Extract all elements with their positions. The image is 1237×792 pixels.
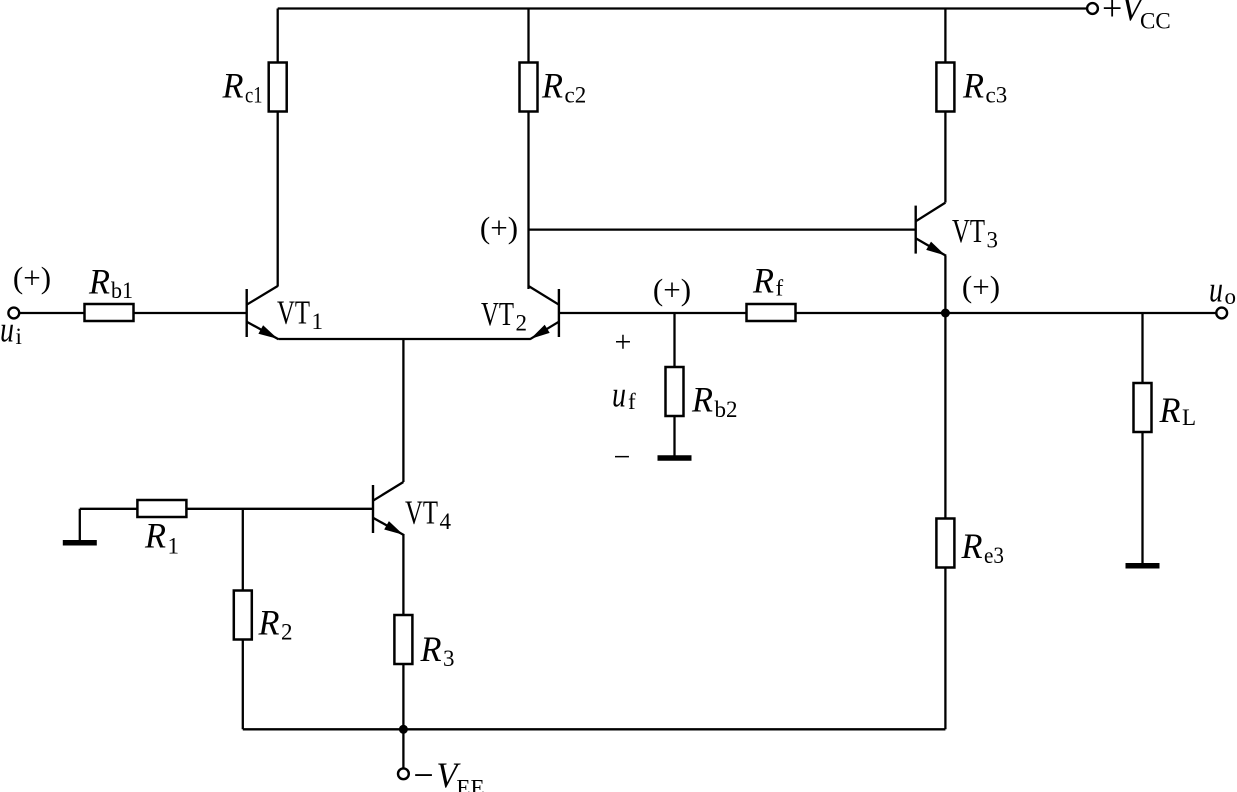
wire Rc2 to VT3 base bbox=[529, 228, 916, 230]
svg-text:−: − bbox=[413, 755, 433, 792]
svg-text:R: R bbox=[962, 66, 984, 106]
resistor Rc2 bbox=[520, 63, 587, 112]
ground R1 bbox=[63, 509, 97, 543]
svg-text:L: L bbox=[1182, 405, 1196, 430]
svg-text:o: o bbox=[1225, 284, 1237, 309]
svg-text:f: f bbox=[776, 276, 784, 301]
svg-text:(+): (+) bbox=[653, 272, 691, 307]
wire RL bottom lead bbox=[1141, 432, 1143, 563]
junction dot output node bbox=[941, 309, 950, 318]
svg-text:c1: c1 bbox=[245, 83, 263, 108]
wire Rb2 top lead bbox=[673, 313, 675, 367]
wire VT3 emitter to output node bbox=[944, 256, 946, 313]
svg-text:(+): (+) bbox=[480, 210, 518, 245]
label ui bbox=[0, 310, 22, 350]
wire VT4 emitter to R3 bbox=[402, 535, 404, 616]
svg-text:f: f bbox=[628, 389, 636, 414]
wire Rc2 top lead bbox=[527, 9, 529, 63]
resistor Rf bbox=[747, 261, 796, 322]
label (+) feedback node bbox=[653, 272, 691, 307]
svg-text:R: R bbox=[752, 261, 774, 301]
wire Rc2 bottom lead bbox=[527, 112, 529, 290]
svg-text:4: 4 bbox=[440, 509, 452, 534]
svg-text:u: u bbox=[1209, 269, 1223, 309]
svg-text:VT: VT bbox=[481, 296, 514, 333]
terminal -VEE bbox=[398, 755, 485, 792]
terminal ui bbox=[8, 308, 19, 319]
wire R2 bottom lead bbox=[242, 640, 244, 730]
label (+) input bbox=[13, 260, 51, 295]
svg-text:R: R bbox=[961, 526, 983, 566]
wire Rc3 bottom lead bbox=[944, 112, 946, 203]
wire Re3 to bottom rail bbox=[944, 568, 946, 730]
resistor Rb2 bbox=[666, 367, 738, 422]
svg-text:VT: VT bbox=[952, 213, 985, 250]
wire VT4 collector bbox=[402, 339, 404, 482]
svg-text:3: 3 bbox=[987, 228, 999, 253]
ground RL bbox=[1126, 563, 1160, 569]
label VT4 bbox=[405, 495, 452, 535]
resistor Rc1 bbox=[222, 63, 287, 112]
svg-text:EE: EE bbox=[456, 776, 484, 792]
label uf bbox=[612, 374, 636, 414]
svg-text:1: 1 bbox=[312, 309, 324, 334]
resistor Re3 bbox=[936, 519, 1004, 568]
svg-text:c2: c2 bbox=[565, 83, 587, 108]
svg-text:b1: b1 bbox=[111, 278, 133, 303]
wire Rc1 top lead bbox=[277, 9, 279, 63]
resistor R2 bbox=[234, 591, 293, 645]
terminal +VCC bbox=[1087, 0, 1171, 34]
wire R1 to VT4 base bbox=[186, 508, 373, 510]
svg-text:1: 1 bbox=[168, 534, 180, 559]
label VT2 bbox=[481, 296, 527, 336]
label (+) output node bbox=[962, 269, 1000, 304]
svg-text:VT: VT bbox=[405, 495, 438, 532]
svg-text:e3: e3 bbox=[984, 543, 1004, 568]
wire Rc3 top lead bbox=[944, 9, 946, 63]
wire VT2 base to uo bbox=[559, 312, 1216, 314]
wire +VCC top rail bbox=[278, 7, 1087, 9]
svg-text:CC: CC bbox=[1140, 9, 1171, 34]
wire VT1-VT2 emitter rail bbox=[279, 338, 531, 340]
terminal uo bbox=[1209, 269, 1236, 318]
svg-text:R: R bbox=[541, 66, 563, 106]
svg-text:R: R bbox=[222, 66, 244, 106]
svg-text:i: i bbox=[16, 324, 22, 349]
wire Rb1 to VT1 base bbox=[134, 312, 247, 314]
svg-text:R: R bbox=[88, 262, 110, 302]
svg-text:2: 2 bbox=[281, 620, 293, 645]
transistor VT1 bbox=[247, 286, 279, 339]
wire ui to Rb1 bbox=[19, 312, 85, 314]
label (+) VT3 base bbox=[480, 210, 518, 245]
label VT3 bbox=[952, 213, 998, 253]
transistor VT4 bbox=[373, 482, 404, 535]
ground Rb2 bbox=[658, 455, 692, 461]
wire gnd to R1 bbox=[80, 508, 138, 510]
wire R3 bottom lead bbox=[402, 664, 404, 729]
label VT1 bbox=[277, 295, 323, 335]
svg-text:−: − bbox=[614, 441, 631, 474]
resistor Rc3 bbox=[936, 63, 1007, 112]
svg-text:+: + bbox=[1102, 0, 1122, 28]
svg-text:VT: VT bbox=[277, 295, 310, 332]
svg-text:u: u bbox=[612, 374, 626, 414]
svg-text:(+): (+) bbox=[13, 260, 51, 295]
transistor VT2 bbox=[529, 286, 559, 339]
resistor R1 bbox=[137, 500, 186, 559]
svg-text:R: R bbox=[691, 379, 713, 419]
transistor VT3 bbox=[916, 203, 947, 256]
svg-text:R: R bbox=[1159, 390, 1181, 430]
svg-text:R: R bbox=[420, 629, 442, 669]
svg-text:(+): (+) bbox=[962, 269, 1000, 304]
resistor RL bbox=[1134, 383, 1197, 432]
svg-text:+: + bbox=[615, 326, 632, 359]
wire R2 top lead bbox=[242, 509, 244, 591]
svg-text:2: 2 bbox=[516, 311, 528, 336]
label - uf bbox=[614, 441, 631, 474]
wire to -VEE terminal bbox=[402, 729, 404, 768]
wire RL top lead bbox=[1141, 313, 1143, 384]
wire output node to Re3 bbox=[944, 313, 946, 519]
svg-text:c3: c3 bbox=[986, 83, 1008, 108]
label + uf bbox=[615, 326, 632, 359]
junction dot -VEE node bbox=[399, 725, 408, 734]
svg-text:b2: b2 bbox=[715, 397, 738, 422]
svg-text:u: u bbox=[0, 310, 14, 350]
wire Rc1 bottom lead bbox=[277, 112, 279, 287]
svg-text:R: R bbox=[258, 603, 280, 643]
resistor R3 bbox=[394, 615, 454, 671]
wire -VEE bottom rail bbox=[243, 728, 946, 730]
wire Rb2 bottom lead bbox=[673, 416, 675, 456]
svg-text:R: R bbox=[144, 516, 166, 556]
svg-text:3: 3 bbox=[443, 646, 455, 671]
resistor Rb1 bbox=[85, 262, 134, 322]
